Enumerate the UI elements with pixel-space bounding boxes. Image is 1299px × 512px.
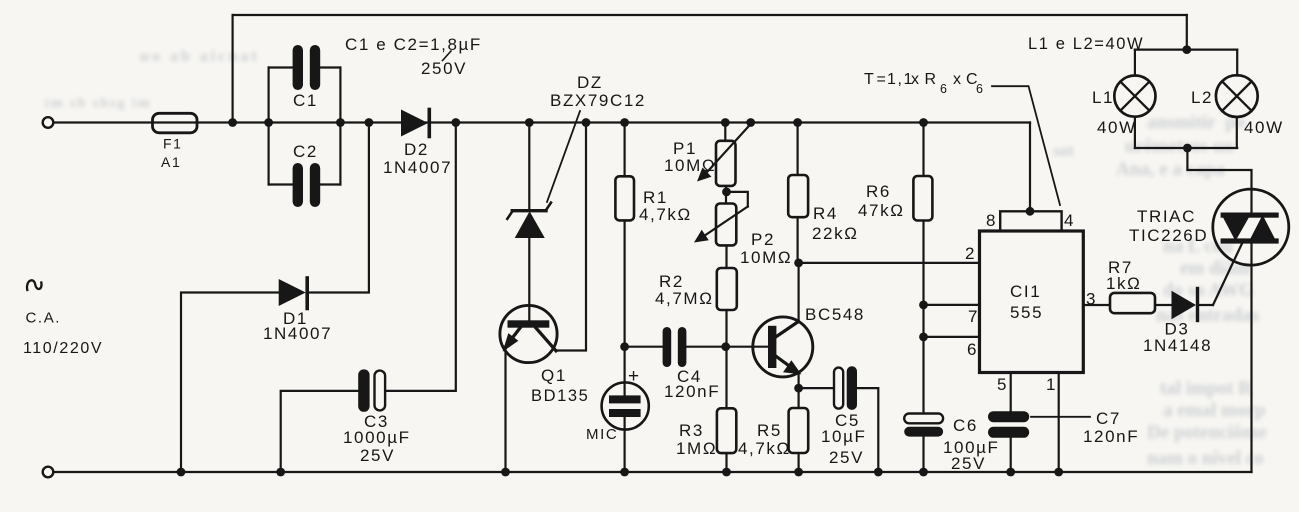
tick under 1,8uF value xyxy=(443,51,452,61)
wire BC548 collector riser xyxy=(797,263,799,322)
svg-text:4,7kΩ: 4,7kΩ xyxy=(639,205,692,224)
wire mic node to MIC top plate xyxy=(623,347,625,396)
wire L2 top lead xyxy=(1236,50,1238,76)
AC sine symbol xyxy=(27,280,42,290)
wire pin3 row to R7 xyxy=(1083,304,1110,306)
wire base node down to R3 xyxy=(725,347,727,409)
wire lamp bottom rail xyxy=(1135,147,1237,149)
wire T-formula pointer xyxy=(992,86,1060,205)
wire R7 to D3 xyxy=(1155,304,1172,306)
wire C4 right plate to base node xyxy=(686,346,726,348)
wire base node to BC548 base xyxy=(726,346,768,348)
resistor R6 xyxy=(913,176,932,221)
capacitor C5 polarized xyxy=(834,368,843,409)
svg-text:P2: P2 xyxy=(751,230,775,249)
svg-text:F1: F1 xyxy=(163,136,183,152)
wire L2 bottom lead xyxy=(1236,117,1238,148)
resistor R3 xyxy=(717,408,736,453)
wire D1 cathode to rail riser xyxy=(309,123,369,293)
wire pin6 row to 555 xyxy=(924,336,980,338)
capacitor C6 polarized xyxy=(904,414,943,424)
svg-text:25V: 25V xyxy=(829,448,864,467)
wire R6 branch from rail xyxy=(922,123,924,177)
lamp L2 xyxy=(1216,75,1258,117)
wire C7 bottom to ground xyxy=(1010,438,1012,472)
svg-text:1N4148: 1N4148 xyxy=(1143,336,1212,355)
wire C6 bottom to ground xyxy=(922,436,924,472)
microphone MIC xyxy=(602,382,649,429)
resistor R2 xyxy=(717,268,737,310)
svg-text:1: 1 xyxy=(1046,375,1057,394)
svg-text:10MΩ: 10MΩ xyxy=(740,248,792,267)
wire D1 branch up from ground xyxy=(181,293,279,473)
svg-text:TIC226D: TIC226D xyxy=(1129,226,1208,245)
wire C2 row xyxy=(269,183,341,185)
diode D2 xyxy=(401,110,428,137)
wire Q1 collector to rail riser xyxy=(556,123,586,351)
svg-text:C1 e C2=1,8µF: C1 e C2=1,8µF xyxy=(345,35,482,54)
svg-text:25V: 25V xyxy=(360,446,395,465)
svg-text:1N4007: 1N4007 xyxy=(263,324,332,343)
svg-text:1,1: 1,1 xyxy=(887,71,914,88)
svg-text:R3: R3 xyxy=(679,421,704,440)
svg-text:40W: 40W xyxy=(1244,118,1284,137)
svg-text:D2: D2 xyxy=(404,140,429,159)
wire R2 bottom to base node xyxy=(725,310,727,347)
terminal input bottom xyxy=(43,467,54,478)
svg-text:4,7MΩ: 4,7MΩ xyxy=(655,289,714,308)
svg-text:10µF: 10µF xyxy=(821,427,867,446)
wire C1C2 left vertical xyxy=(268,68,270,185)
wire C1 row xyxy=(269,66,341,68)
wire R1 bottom to mic node xyxy=(623,220,625,346)
transistor Q2 BC548 xyxy=(753,317,813,377)
wire R4 branch from rail xyxy=(796,123,798,176)
svg-text:=: = xyxy=(877,71,888,88)
fuse F1 xyxy=(153,113,198,133)
svg-text:+: + xyxy=(628,366,641,387)
wire DZ label pointer xyxy=(547,111,580,202)
svg-text:1kΩ: 1kΩ xyxy=(1106,274,1141,293)
svg-text:CI1: CI1 xyxy=(1010,282,1041,301)
wire mic node to C4 left plate xyxy=(625,346,663,348)
svg-text:x: x xyxy=(953,71,963,88)
svg-text:R6: R6 xyxy=(866,182,891,201)
wire zener branch from rail xyxy=(528,123,530,210)
wire C1C2 right vertical xyxy=(339,68,341,185)
terminal input top xyxy=(43,117,54,128)
svg-text:40W: 40W xyxy=(1097,118,1137,137)
svg-text:1N4007: 1N4007 xyxy=(383,158,452,177)
capacitor C2 xyxy=(293,163,303,207)
capacitor C7 xyxy=(988,411,1029,422)
potentiometer P2 xyxy=(716,204,736,246)
potentiometer P1 xyxy=(716,141,736,186)
wire R6 bottom to pin7 node xyxy=(922,220,924,305)
triac TIC226D xyxy=(1213,189,1289,265)
wire C7 pointer line xyxy=(1031,416,1090,418)
wire ground rail xyxy=(54,471,1252,473)
svg-text:4,7kΩ: 4,7kΩ xyxy=(738,439,791,458)
capacitor C4 xyxy=(663,327,672,367)
wire L1 top lead xyxy=(1134,50,1136,76)
wire R5 bottom to ground xyxy=(797,453,799,472)
svg-text:C.A.: C.A. xyxy=(26,310,62,327)
wire triac gate diagonal xyxy=(1213,244,1242,306)
wire vertical top-left tap xyxy=(232,15,234,123)
svg-text:R5: R5 xyxy=(757,421,782,440)
wire triac bottom to ground xyxy=(1250,244,1252,473)
svg-text:TRIAC: TRIAC xyxy=(1137,207,1196,226)
svg-text:R4: R4 xyxy=(813,204,838,223)
IC CI1 555 body xyxy=(980,231,1084,373)
svg-text:C1: C1 xyxy=(293,91,318,110)
wire pin2 row to 555 xyxy=(799,262,980,264)
svg-text:6: 6 xyxy=(940,82,949,96)
svg-text:L1: L1 xyxy=(1092,88,1114,107)
svg-text:7: 7 xyxy=(968,307,979,326)
svg-text:C6: C6 xyxy=(953,416,978,435)
svg-text:2: 2 xyxy=(965,244,976,263)
GHOSTS xyxy=(1147,112,1245,134)
svg-text:6: 6 xyxy=(967,340,978,359)
diode D3 xyxy=(1172,291,1197,319)
svg-text:T: T xyxy=(864,71,875,88)
diode D1 xyxy=(279,279,306,306)
label T formula xyxy=(864,71,985,96)
wire lamp top riser xyxy=(1186,15,1188,50)
capacitor C1 xyxy=(293,45,303,90)
svg-text:555: 555 xyxy=(1010,303,1043,322)
svg-text:C2: C2 xyxy=(293,142,318,161)
wire P2 bottom to R2 top xyxy=(725,245,727,268)
svg-text:L2: L2 xyxy=(1191,88,1213,107)
transistor Q1 BD135 xyxy=(500,305,557,362)
wire emitter node to C5 left plate xyxy=(799,387,835,389)
wire lamp top rail xyxy=(1135,48,1237,50)
wire pin1 to ground xyxy=(1058,373,1060,473)
svg-text:BC548: BC548 xyxy=(805,305,865,324)
svg-text:1000µF: 1000µF xyxy=(343,428,411,447)
svg-text:8: 8 xyxy=(986,211,997,230)
wire rail corner down to 555 bracket xyxy=(1029,123,1031,212)
wire C3 right to rail riser xyxy=(385,123,456,391)
wire R4 bottom to pin2 node xyxy=(796,217,798,263)
wire R3 bottom to ground xyxy=(725,453,727,472)
svg-text:DZ: DZ xyxy=(577,73,603,92)
wire pin7 row to 555 xyxy=(924,304,980,306)
svg-text:L1 e L2=40W: L1 e L2=40W xyxy=(1028,35,1144,53)
resistor R1 xyxy=(615,176,634,220)
wire main rail from fuse to 555 corner xyxy=(54,121,1031,123)
svg-text:A1: A1 xyxy=(161,154,181,170)
svg-text:BD135: BD135 xyxy=(531,387,589,405)
wire P1 bottom to P2 top xyxy=(725,186,727,204)
lamp L1 xyxy=(1114,76,1155,117)
svg-text:120nF: 120nF xyxy=(664,382,720,401)
svg-text:1MΩ: 1MΩ xyxy=(676,439,717,458)
wire lamp junction to triac top xyxy=(1187,148,1251,213)
wire D3 cathode out xyxy=(1199,304,1214,306)
svg-text:5: 5 xyxy=(997,375,1008,394)
wire R1 branch from rail xyxy=(623,123,625,177)
svg-text:22kΩ: 22kΩ xyxy=(812,224,859,243)
wire pin6 node down to C6 top xyxy=(922,337,924,414)
resistor R5 xyxy=(789,408,809,453)
IC top bracket pins 8 and 4 xyxy=(1000,211,1061,231)
svg-text:10MΩ: 10MΩ xyxy=(664,156,716,175)
svg-text:3: 3 xyxy=(1086,290,1097,309)
svg-text:250V: 250V xyxy=(421,59,467,78)
wire P1 branch from rail xyxy=(724,123,726,141)
svg-text:25V: 25V xyxy=(951,454,986,473)
svg-text:x: x xyxy=(911,71,921,88)
svg-text:MIC: MIC xyxy=(586,426,618,443)
wire zener anode to Q1 base xyxy=(528,237,530,321)
wire Q1 emitter down to ground xyxy=(504,348,506,472)
svg-text:BZX79C12: BZX79C12 xyxy=(550,91,646,110)
wire MIC bottom to ground xyxy=(623,417,625,473)
wire pin7 node down to pin6 node xyxy=(922,305,924,337)
svg-text:47kΩ: 47kΩ xyxy=(858,201,905,220)
svg-text:C7: C7 xyxy=(1096,409,1121,428)
wire L1 bottom lead xyxy=(1134,117,1136,148)
svg-text:120nF: 120nF xyxy=(1083,427,1139,446)
svg-text:Q1: Q1 xyxy=(541,366,567,385)
svg-text:6: 6 xyxy=(976,82,985,96)
wire C5 right to ground riser xyxy=(857,388,878,472)
wire C3 branch up from ground xyxy=(281,391,359,472)
resistor R7 xyxy=(1110,293,1155,313)
capacitor C3 polarized xyxy=(358,369,369,411)
wire P2 wiper hook xyxy=(727,192,748,207)
wire top horizontal from C1C2 tap to lamps xyxy=(233,14,1187,16)
svg-text:R: R xyxy=(925,71,938,88)
wire pin5 to C7 top xyxy=(1010,373,1012,412)
svg-text:110/220V: 110/220V xyxy=(23,340,103,357)
wire BC548 emitter down to R5 xyxy=(797,373,799,408)
zener diode DZ xyxy=(507,203,551,238)
svg-text:4: 4 xyxy=(1064,211,1075,230)
resistor R4 xyxy=(788,175,808,217)
